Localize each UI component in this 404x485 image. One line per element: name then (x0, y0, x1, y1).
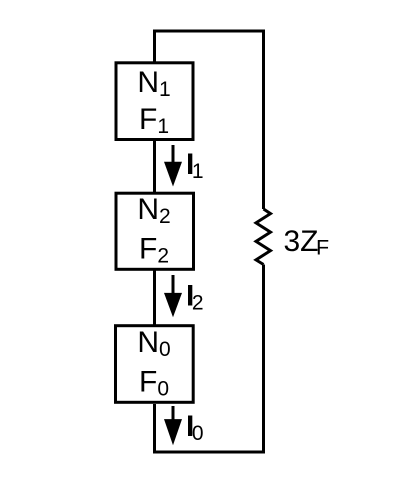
svg-text:I0: I0 (186, 410, 204, 445)
current arrow I0 (164, 406, 182, 445)
svg-text:I1: I1 (186, 148, 204, 183)
wire bottom, bottom-right corner to block N0F0 bottom (155, 404, 264, 452)
svg-text:3ZF: 3ZF (284, 225, 330, 260)
svg-text:I2: I2 (186, 280, 204, 315)
wire block N1F1 bottom to block N2F2 top (153, 140, 156, 193)
wire right side lower, resistor to bottom-right corner (262, 265, 265, 454)
wire block N2F2 bottom to block N0F0 top (153, 270, 156, 326)
wire right side upper, top corner to resistor (262, 30, 265, 210)
current arrow I1 (164, 145, 182, 187)
current arrow I2 (164, 275, 182, 317)
resistor 3ZF zigzag (256, 209, 271, 265)
block N0 F0 box (116, 326, 194, 403)
block N2 F2 box (116, 193, 194, 269)
block N1 F1 box (116, 63, 193, 140)
wire from block N1F1 top to top-right corner (155, 31, 264, 63)
